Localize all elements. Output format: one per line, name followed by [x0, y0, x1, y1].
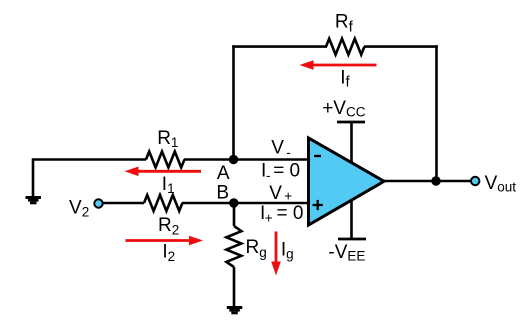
- svg-text:Rg: Rg: [246, 237, 267, 260]
- resistor R2: [144, 195, 182, 211]
- svg-text:-VEE: -VEE: [328, 242, 365, 264]
- terminal V2: [94, 199, 102, 207]
- svg-text:R1: R1: [157, 128, 178, 150]
- label node B: [216, 182, 229, 203]
- label node A: [217, 163, 230, 184]
- wire -Vee stem: [350, 198, 353, 239]
- resistor Rf: [326, 39, 364, 55]
- power rail +Vcc bar: [337, 121, 365, 124]
- wire +Vcc stem: [350, 122, 353, 164]
- power rail -Vee bar: [338, 238, 366, 241]
- wire Rg to ground: [233, 267, 236, 307]
- wire feedback left vertical: [232, 45, 235, 159]
- svg-text:If: If: [340, 67, 350, 90]
- svg-text:V-: V-: [271, 138, 290, 160]
- svg-text:R2: R2: [158, 215, 179, 238]
- svg-text:Rf: Rf: [335, 12, 354, 36]
- resistor R1: [146, 152, 184, 168]
- label R1: [157, 128, 178, 150]
- svg-text:Ig: Ig: [281, 239, 294, 261]
- node output junction dot: [431, 176, 440, 185]
- terminal Vout: [471, 177, 479, 185]
- wire node B down to Rg: [233, 203, 236, 226]
- ground left: [26, 196, 42, 204]
- svg-text:Vout: Vout: [485, 173, 517, 195]
- current arrow I1: [125, 167, 202, 177]
- svg-text:B: B: [216, 182, 229, 203]
- op-amp plus pin mark: [313, 200, 323, 210]
- wire R1 to op-amp inverting input: [184, 158, 309, 161]
- wire R2 to op-amp non-inverting input: [182, 202, 309, 205]
- label I2: [162, 242, 175, 264]
- label Rg: [246, 237, 267, 260]
- op-amp minus pin mark: [314, 155, 321, 157]
- current arrow Ig: [271, 232, 281, 276]
- node B junction dot: [229, 198, 238, 207]
- wire R1 left lead with corner down to ground: [33, 160, 146, 197]
- svg-text:V+: V+: [269, 183, 292, 204]
- svg-text:I-= 0: I-= 0: [261, 161, 300, 184]
- svg-text:I2: I2: [162, 242, 175, 264]
- wire feedback right vertical: [435, 45, 438, 181]
- wire feedback top right segment: [364, 45, 438, 48]
- resistor Rg: [226, 226, 241, 267]
- label Vout: [485, 173, 517, 195]
- svg-text:+VCC: +VCC: [322, 98, 366, 120]
- svg-text:V2: V2: [69, 197, 89, 219]
- current arrow If: [300, 60, 377, 70]
- node A junction dot: [229, 155, 238, 164]
- label Rf: [335, 12, 354, 36]
- ground bottom: [227, 306, 243, 314]
- svg-text:I+= 0: I+= 0: [260, 203, 303, 226]
- label Ig: [281, 239, 294, 261]
- op-amp U1: [309, 138, 385, 225]
- label -Vee: [328, 242, 365, 264]
- wire V2 to R2: [103, 202, 145, 205]
- label I+ = 0: [260, 203, 303, 226]
- label V2: [69, 197, 89, 219]
- label I1: [162, 174, 175, 196]
- svg-text:A: A: [217, 163, 230, 184]
- label V- inverting input: [271, 138, 290, 160]
- label V+ non-inverting input: [269, 183, 292, 204]
- label +Vcc: [322, 98, 366, 120]
- wire op-amp output: [384, 180, 471, 183]
- wire feedback top left segment: [232, 45, 327, 48]
- label I- = 0: [261, 161, 300, 184]
- label If: [340, 67, 350, 90]
- label R2: [158, 215, 179, 238]
- current arrow I2: [126, 236, 204, 246]
